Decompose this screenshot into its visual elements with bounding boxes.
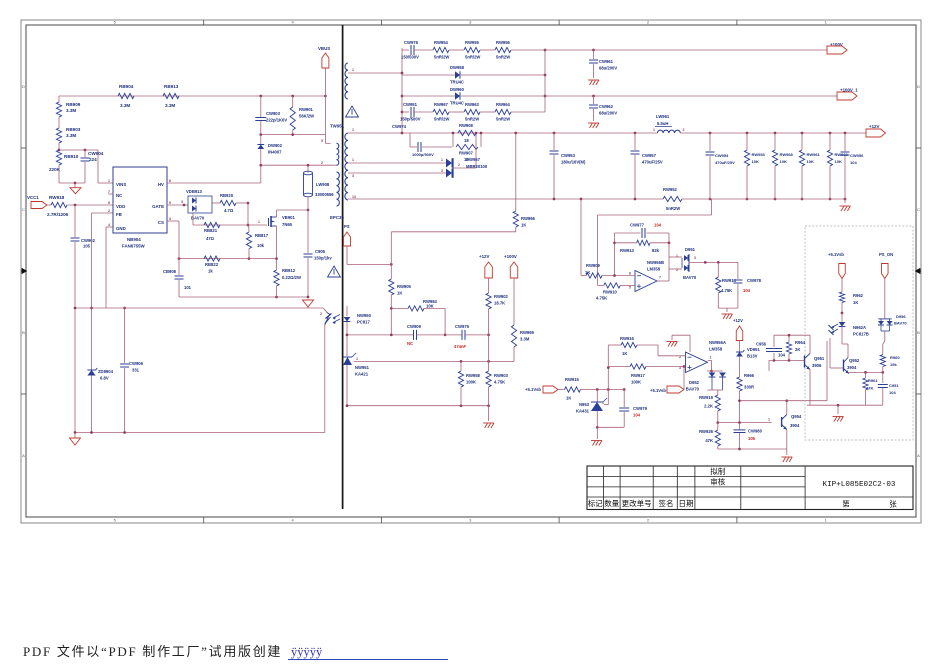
svg-text:7N65: 7N65 [282,222,293,227]
svg-text:CW974: CW974 [392,124,407,129]
svg-text:RW915: RW915 [565,377,580,382]
svg-text:NW950: NW950 [357,313,372,318]
svg-text:C951: C951 [889,383,899,388]
svg-text:+12V: +12V [869,124,879,129]
svg-text:CB908: CB908 [163,269,177,274]
svg-text:150p/500V: 150p/500V [400,117,421,122]
svg-text:N962A: N962A [853,325,866,330]
svg-text:BAV70: BAV70 [683,275,697,280]
svg-text:105: 105 [83,244,91,249]
svg-text:GND: GND [116,226,126,231]
svg-text:1: 1 [441,158,443,162]
svg-text:4: 4 [108,223,110,227]
svg-text:RW903: RW903 [494,373,509,378]
svg-text:RW966: RW966 [521,216,536,221]
svg-text:R964: R964 [795,340,806,345]
svg-text:RW902: RW902 [494,294,509,299]
svg-text:224: 224 [89,157,97,162]
svg-text:CW961: CW961 [599,59,614,64]
svg-text:5: 5 [169,201,171,205]
svg-text:Q954: Q954 [791,414,802,419]
svg-text:19k: 19k [890,362,897,367]
svg-text:D952: D952 [689,380,700,385]
svg-text:D956: D956 [896,314,906,319]
svg-text:68u/200V: 68u/200V [599,111,617,116]
svg-text:A: A [22,453,25,458]
svg-text:CW980: CW980 [748,429,763,434]
svg-text:1K: 1K [853,300,858,305]
svg-text:3: 3 [169,217,171,221]
svg-text:审核: 审核 [710,476,725,486]
svg-text:LM358: LM358 [709,347,723,352]
svg-text:R966: R966 [744,373,755,378]
svg-text:RW910: RW910 [603,289,618,294]
svg-text:CW951: CW951 [403,102,418,107]
svg-text:+5.1Vsb: +5.1Vsb [650,388,666,393]
svg-text:1: 1 [258,220,260,224]
svg-text:RW905: RW905 [397,284,412,289]
svg-text:B13V: B13V [747,354,758,359]
svg-text:NW951: NW951 [355,365,370,370]
svg-text:PS: PS [344,224,350,229]
svg-text:101: 101 [184,285,192,290]
svg-text:R962: R962 [853,293,864,298]
svg-text:10K: 10K [780,159,787,164]
svg-text:2: 2 [321,161,323,165]
svg-text:签名: 签名 [659,498,674,508]
svg-text:5nR2W: 5nR2W [465,117,479,122]
svg-text:CW954: CW954 [715,153,729,158]
svg-text:1K: 1K [622,351,627,356]
svg-text:CW976: CW976 [404,40,419,45]
svg-text:CW906: CW906 [129,361,144,366]
svg-text:1K: 1K [521,223,526,228]
svg-text:1: 1 [676,254,678,258]
svg-text:RW969: RW969 [520,330,535,335]
svg-text:10k: 10k [257,243,265,248]
svg-text:1: 1 [356,357,358,361]
svg-text:日期: 日期 [679,499,694,508]
svg-text:CW902: CW902 [81,238,96,243]
svg-text:RW952: RW952 [663,187,678,192]
svg-text:104: 104 [633,413,641,418]
svg-text:3: 3 [441,169,443,173]
svg-text:2: 2 [458,163,460,167]
svg-text:RW909: RW909 [586,263,601,268]
svg-text:RB910: RB910 [64,154,79,159]
svg-text:NW956A: NW956A [709,340,726,345]
svg-text:更改单号: 更改单号 [622,498,652,508]
svg-text:CW975: CW975 [455,324,470,329]
svg-text:1K: 1K [566,396,571,401]
svg-text:B: B [917,330,920,335]
svg-text:RW958: RW958 [466,373,481,378]
svg-text:CW977: CW977 [630,223,645,228]
svg-text:PDF 文件以“PDF 制作工厂”试用版创建: PDF 文件以“PDF 制作工厂”试用版创建 [23,644,282,659]
svg-text:7: 7 [659,276,661,280]
svg-text:CW962: CW962 [599,104,614,109]
svg-text:CW978: CW978 [747,278,762,283]
svg-text:RW967: RW967 [434,102,449,107]
svg-text:RB913: RB913 [164,84,179,89]
svg-text:ZD8904: ZD8904 [98,369,114,374]
svg-text:RW926: RW926 [699,429,714,434]
svg-text:VCC1: VCC1 [27,195,39,200]
svg-text:RW968: RW968 [780,152,794,157]
svg-text:FAN6755W: FAN6755W [122,244,146,249]
svg-text:PC817B: PC817B [853,332,869,337]
svg-text:RB920: RB920 [220,193,234,198]
svg-text:6.8V: 6.8V [100,376,109,381]
svg-text:VINS: VINS [116,182,126,187]
svg-text:0.22Ω/2W: 0.22Ω/2W [282,275,301,280]
svg-text:RB904: RB904 [119,84,134,89]
svg-text:10K: 10K [752,159,759,164]
svg-text:数量: 数量 [604,498,619,508]
svg-text:DW902: DW902 [268,143,283,148]
svg-text:+12V: +12V [733,318,743,323]
svg-text:LM358: LM358 [647,267,661,272]
svg-text:PC817: PC817 [357,320,370,325]
svg-text:Q951: Q951 [814,356,825,361]
svg-text:CW903: CW903 [266,111,281,116]
svg-text:VD951: VD951 [747,347,760,352]
svg-text:1K: 1K [585,270,590,275]
svg-text:TRU4C: TRU4C [450,101,464,106]
svg-text:6: 6 [629,272,631,276]
svg-text:ÿÿÿÿÿ: ÿÿÿÿÿ [291,645,323,659]
svg-text:5nR/2W: 5nR/2W [434,117,449,122]
svg-text:4.7Ω: 4.7Ω [224,208,234,213]
svg-text:1K: 1K [397,291,402,296]
svg-text:3.3M: 3.3M [520,337,530,342]
svg-text:5nR2W: 5nR2W [496,117,510,122]
svg-text:150/500V: 150/500V [401,55,419,60]
svg-text:10K: 10K [835,159,842,164]
svg-text:LW908: LW908 [316,182,330,187]
svg-text:VBUS: VBUS [318,46,330,51]
svg-text:CW953: CW953 [561,153,576,158]
svg-text:1: 1 [768,418,770,422]
svg-text:RW964: RW964 [496,102,511,107]
svg-text:1: 1 [352,158,354,162]
svg-text:KIP+L085E02C2-03: KIP+L085E02C2-03 [823,481,896,489]
svg-text:RW913: RW913 [620,248,635,253]
svg-text:4.75K: 4.75K [494,380,505,385]
svg-text:13: 13 [352,195,356,199]
svg-text:104: 104 [850,160,857,165]
svg-text:KA431: KA431 [576,409,590,414]
svg-text:2: 2 [108,209,110,213]
svg-text:RW908: RW908 [459,123,474,128]
svg-text:TRU4C: TRU4C [450,80,464,85]
svg-text:CW979: CW979 [633,406,648,411]
svg-text:RW907: RW907 [459,151,474,156]
svg-text:+12V: +12V [479,254,489,259]
svg-text:3.3M: 3.3M [120,103,130,108]
svg-text:2: 2 [320,312,322,316]
svg-text:FB: FB [116,212,122,217]
svg-text:6: 6 [108,201,110,205]
svg-text:3: 3 [352,174,354,178]
svg-text:2K: 2K [795,347,800,352]
svg-text:R960: R960 [890,355,900,360]
svg-text:3: 3 [181,200,183,204]
svg-text:RB817: RB817 [255,233,269,238]
svg-text:3.3M: 3.3M [66,133,76,138]
svg-text:RB912: RB912 [282,268,296,273]
svg-text:拟制: 拟制 [710,466,725,476]
svg-text:68u/200V: 68u/200V [599,66,617,71]
svg-text:33000556: 33000556 [315,192,334,197]
svg-text:5: 5 [321,139,323,143]
svg-text:D: D [22,84,25,89]
svg-text:VDD: VDD [116,204,125,209]
svg-text:3: 3 [694,256,696,260]
svg-text:8: 8 [169,179,171,183]
svg-text:5nR2W: 5nR2W [666,206,680,211]
svg-text:CW957: CW957 [642,153,657,158]
svg-text:RW954: RW954 [434,40,449,45]
svg-text:RW961: RW961 [807,152,821,157]
svg-text:CW956: CW956 [850,153,864,158]
svg-text:+5.1Vsb: +5.1Vsb [828,252,844,257]
svg-text:RW917: RW917 [631,373,646,378]
svg-text:1000p/500V: 1000p/500V [412,152,434,157]
svg-text:220K: 220K [49,167,61,172]
svg-text:NC: NC [116,193,123,198]
svg-text:RW919: RW919 [699,395,714,400]
svg-text:RW955: RW955 [465,40,480,45]
svg-text:47K: 47K [705,438,713,443]
svg-text:10K: 10K [426,303,434,308]
svg-text:104: 104 [778,353,786,358]
svg-text:4.75K: 4.75K [596,296,607,301]
svg-text:VB901: VB901 [282,215,295,220]
svg-text:TW951: TW951 [330,124,345,129]
svg-text:NC: NC [407,341,413,346]
svg-text:82k: 82k [652,248,660,253]
svg-text:RW963: RW963 [465,102,480,107]
svg-text:CS: CS [158,220,164,225]
svg-text:N953: N953 [579,402,590,407]
svg-text:100K: 100K [466,380,476,385]
svg-text:1: 1 [602,401,604,405]
svg-text:CW904: CW904 [88,151,104,156]
svg-text:C905: C905 [315,249,326,254]
svg-text:张: 张 [889,499,897,508]
svg-text:BAV70: BAV70 [686,387,700,392]
svg-text:LW961: LW961 [656,114,670,119]
svg-text:10K: 10K [807,159,814,164]
svg-text:A: A [917,453,920,458]
svg-text:1k: 1k [208,269,213,274]
svg-text:RB822: RB822 [205,262,219,267]
svg-text:C: C [22,207,25,212]
svg-text:Q952: Q952 [849,358,860,363]
svg-text:7: 7 [108,190,110,194]
svg-text:D: D [917,84,920,89]
svg-text:RB821: RB821 [204,228,218,233]
svg-text:3.3M: 3.3M [165,103,175,108]
svg-text:330R: 330R [744,385,754,390]
svg-text:470uF/25V: 470uF/25V [715,160,735,165]
svg-text:2.2K: 2.2K [704,404,713,409]
svg-text:CW909: CW909 [407,324,422,329]
svg-text:BAV70: BAV70 [894,321,907,326]
svg-text:DW957: DW957 [466,157,481,162]
svg-text:NB904: NB904 [127,237,141,242]
svg-text:3.3M: 3.3M [66,108,76,113]
svg-text:5nR/2W: 5nR/2W [465,55,480,60]
svg-text:3906: 3906 [812,363,822,368]
svg-text:56K/2W: 56K/2W [299,114,314,119]
svg-text:标记: 标记 [588,498,603,508]
svg-text:47K: 47K [866,386,873,391]
svg-text:DW958: DW958 [450,65,465,70]
svg-text:104: 104 [654,223,662,228]
svg-text:第: 第 [842,498,850,508]
svg-text:RW901: RW901 [299,107,314,112]
svg-text:EPC35: EPC35 [330,215,344,220]
svg-text:KA421: KA421 [355,372,369,377]
svg-text:HV: HV [158,182,164,187]
svg-text:5.5uH: 5.5uH [657,121,668,126]
svg-text:RW956: RW956 [496,40,511,45]
svg-text:1: 1 [710,356,712,360]
svg-text:5: 5 [629,286,631,290]
svg-text:1: 1 [352,68,354,72]
svg-text:MBR20100: MBR20100 [466,164,488,169]
svg-text:104: 104 [889,390,896,395]
svg-text:PS_ON: PS_ON [879,252,893,257]
svg-text:C956: C956 [756,342,767,347]
svg-text:47Ω: 47Ω [206,236,215,241]
svg-text:RW918: RW918 [49,195,65,200]
svg-text:5nR/2W: 5nR/2W [434,55,449,60]
svg-text:180u/16V(M): 180u/16V(M) [561,160,586,165]
svg-text:470uF/25V: 470uF/25V [642,160,663,165]
svg-text:IN4007: IN4007 [268,150,282,155]
svg-text:D951: D951 [685,247,696,252]
svg-text:RB909: RB909 [66,102,81,107]
svg-text:18.7K: 18.7K [494,301,505,306]
svg-text:331: 331 [132,368,140,373]
svg-text:1: 1 [108,179,110,183]
svg-text:RW916: RW916 [620,336,635,341]
svg-text:3904: 3904 [790,423,800,428]
svg-text:1: 1 [653,128,655,132]
svg-text:2: 2 [683,128,685,132]
svg-text:NW956B: NW956B [647,260,664,265]
svg-text:R961: R961 [868,378,878,383]
svg-text:2.7R/1206: 2.7R/1206 [47,212,69,217]
svg-text:+100V: +100V [504,254,517,259]
svg-text:DW960: DW960 [450,87,465,92]
svg-text:B: B [22,330,25,335]
svg-text:18: 18 [464,138,469,143]
svg-text:474nF: 474nF [454,344,467,349]
svg-text:RB903: RB903 [66,127,81,132]
svg-text:100K: 100K [631,380,641,385]
svg-text:VDB913: VDB913 [186,189,202,194]
svg-text:4.75K: 4.75K [721,288,732,293]
svg-text:C: C [917,207,920,212]
svg-text:104: 104 [743,288,751,293]
svg-text:3904: 3904 [847,365,857,370]
svg-text:GATE: GATE [152,204,164,209]
svg-text:RW953: RW953 [752,152,766,157]
svg-text:150p/1kv: 150p/1kv [314,256,332,261]
svg-text:5nR2W: 5nR2W [496,55,510,60]
svg-text:1: 1 [352,128,354,132]
svg-text:+5.1Vsb: +5.1Vsb [525,387,541,392]
svg-text:105: 105 [748,436,756,441]
svg-text:222p/1K6V: 222p/1K6V [266,118,287,123]
svg-text:2: 2 [676,268,678,272]
